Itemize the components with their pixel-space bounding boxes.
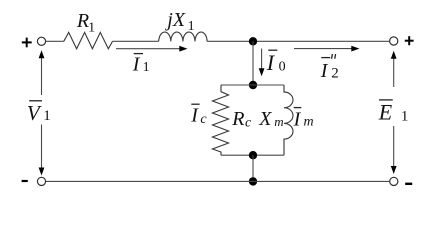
node bottom junction <box>249 177 257 185</box>
wire node to right terminal <box>253 40 390 42</box>
svg-text:1: 1 <box>188 19 195 34</box>
label Rc <box>231 108 252 131</box>
svg-text:2: 2 <box>331 66 339 82</box>
wire node down to shunt <box>252 41 254 85</box>
plus sign top-right <box>405 36 414 45</box>
node top junction <box>249 37 257 45</box>
label R1 <box>76 10 95 36</box>
label V1 <box>27 101 51 125</box>
svg-text:0: 0 <box>279 60 286 75</box>
svg-text:1: 1 <box>88 21 95 36</box>
minus sign bottom-right <box>405 183 412 185</box>
shunt bottom node <box>249 151 257 159</box>
svg-text:I: I <box>190 105 199 127</box>
wire jX1 to node <box>207 40 253 42</box>
svg-text:jX: jX <box>164 9 186 31</box>
svg-text:R: R <box>231 108 244 130</box>
shunt loop bottom wire <box>221 154 284 156</box>
inductor Xm <box>284 85 293 155</box>
svg-text:E: E <box>378 100 393 125</box>
resistor R1 <box>64 32 113 48</box>
terminal top-left <box>37 37 45 45</box>
arrow E1 lower <box>391 126 397 174</box>
svg-text:m: m <box>274 114 283 129</box>
shunt top node <box>249 81 257 89</box>
wire top-left stub <box>46 40 64 42</box>
inductor jX1 <box>159 32 207 41</box>
svg-text:1: 1 <box>43 108 51 124</box>
shunt loop top wire <box>221 84 284 86</box>
arrow I1 <box>116 46 188 52</box>
plus sign top-left <box>22 38 32 48</box>
svg-text:I: I <box>266 50 276 75</box>
svg-text:I: I <box>293 108 302 130</box>
label I1 <box>132 53 150 75</box>
minus sign bottom-left <box>22 180 28 182</box>
svg-text:I: I <box>132 53 141 75</box>
terminal bottom-left <box>37 177 45 185</box>
label Im <box>293 108 314 131</box>
terminal top-right <box>390 37 398 45</box>
arrow V1 lower <box>39 125 45 176</box>
label E1 <box>378 100 409 125</box>
label I2 double-prime <box>320 54 339 82</box>
svg-text:X: X <box>258 108 272 130</box>
svg-text:1: 1 <box>401 109 409 125</box>
svg-text:V: V <box>27 101 42 125</box>
label Ic <box>190 104 207 127</box>
bottom rail wire <box>46 180 390 182</box>
terminal bottom-right <box>390 177 398 185</box>
svg-text:1: 1 <box>143 60 150 75</box>
svg-text:I: I <box>320 60 329 82</box>
resistor Rc <box>213 85 229 155</box>
label jX1 <box>164 9 194 34</box>
wire between R1 and jX1 <box>113 40 159 42</box>
arrow E1 upper <box>391 51 397 87</box>
wire shunt to bottom rail <box>252 155 254 181</box>
label Xm <box>258 108 283 130</box>
arrow I2 <box>294 46 360 52</box>
arrow I0 <box>259 49 265 77</box>
svg-text:c: c <box>200 112 207 127</box>
arrow V1 upper <box>39 50 45 95</box>
svg-text:m: m <box>304 114 314 129</box>
label I0 <box>266 50 286 75</box>
svg-text:c: c <box>245 115 252 130</box>
